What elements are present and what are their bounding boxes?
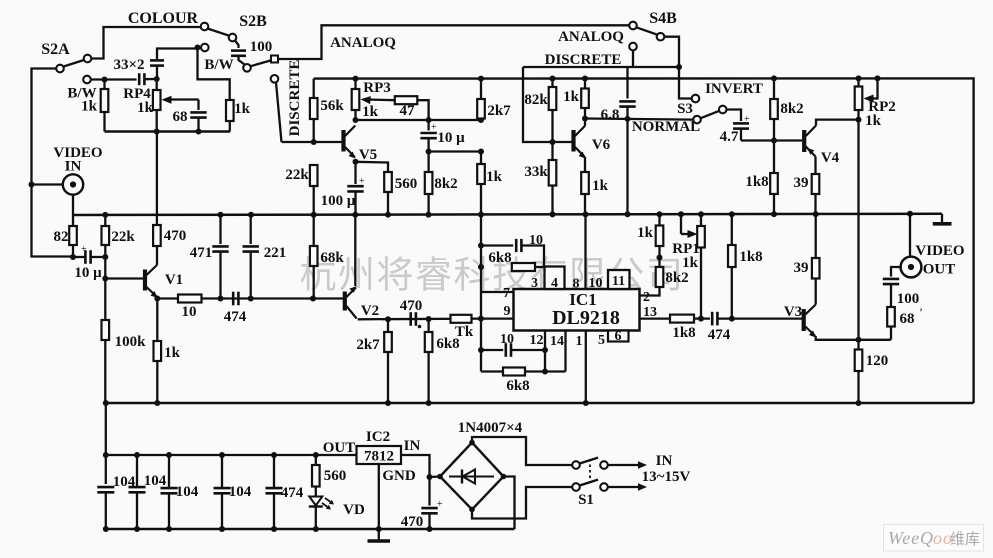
svg-text:10 μ: 10 μ [74,265,102,281]
node S2B B/W junction [195,45,201,51]
label pin8 [573,277,580,292]
capacitor 104 no3 [168,455,170,488]
resistor 68 (output) [887,307,895,340]
svg-text:’: ’ [919,305,923,319]
node cap10b right [542,347,548,353]
node 6k8a left [478,264,484,270]
svg-text:睿: 睿 [415,256,452,297]
node rail x251 [248,212,254,218]
wire bottom rail [106,402,974,405]
resistor 1k (right of RP4 block) [226,100,234,132]
svg-text:2: 2 [643,290,650,305]
svg-text:68k: 68k [320,250,344,266]
label 10 [182,304,197,320]
wire RP2 column down [857,120,859,340]
node RP2 top [856,75,862,81]
svg-text:11: 11 [612,274,625,289]
svg-text:1k: 1k [164,345,181,361]
resistor 120 [855,340,863,403]
node V1 emitter [154,296,160,302]
svg-text:104: 104 [229,484,252,500]
resistor Tk [451,315,472,323]
wire COLOUR to S2A [92,27,200,59]
wire 47 to cap 10u [417,100,428,120]
node 120 bottom [856,400,862,406]
svg-text:OUT: OUT [923,262,956,278]
label 22k [111,229,135,245]
node c5 rail [271,526,277,532]
label pin5 [598,333,605,348]
wire pin8 stub [584,214,586,289]
label 10 (pin12) [500,332,514,347]
svg-text:ANALOQ: ANALOQ [330,35,396,51]
svg-text:1k8: 1k8 [739,249,762,265]
wire pin12 stub [544,331,546,351]
wire left power column [105,403,107,484]
capacitor 100u [354,162,356,184]
resistor 1k (V6 emitter) [581,157,589,214]
label 560 (LED) [324,468,347,484]
resistor 1k8 (V4) [770,141,778,215]
label 82 [54,229,69,245]
svg-text:1k: 1k [234,101,251,117]
wire pin13 [640,317,671,319]
label 1k (RP4) [137,100,154,116]
svg-text:NORMAL: NORMAL [632,119,700,135]
label pin11 [612,274,625,289]
svg-text:RP3: RP3 [363,80,391,96]
svg-text:GND: GND [382,468,416,484]
node c2 rail [134,526,140,532]
node rail x660 [657,211,663,217]
svg-text:82: 82 [54,229,69,245]
svg-text:COLOUR: COLOUR [128,10,199,27]
resistor 6k8 (pin14) [503,368,525,376]
svg-text:1k: 1k [865,113,882,129]
capacitor 10 (pin12) [481,349,503,351]
node rail x314 [311,212,317,218]
node 471 col bottom [218,296,224,302]
label V1 [165,272,183,288]
svg-text:B/W: B/W [204,57,233,73]
node V5 emitter [353,159,359,165]
svg-text:9: 9 [504,304,511,319]
svg-text:56k: 56k [320,98,344,114]
label 104 no4 [229,484,252,500]
label DISCRETE vertical [287,60,303,137]
node 8k2 top [771,75,777,81]
label V4 [821,150,840,166]
label NORMAL [632,119,700,135]
svg-text:S2A: S2A [41,41,70,58]
svg-text:4: 4 [551,276,558,291]
switch S3 common contact [719,106,727,114]
node rail x910 [907,211,913,217]
wire V3 collector [815,296,817,305]
resistor 8k2 (pin2) [656,258,664,288]
wire V5 collector node to 2k7 [356,119,482,121]
node 56k bottom / b-w discrete wire [311,139,317,145]
svg-text:104: 104 [144,473,167,489]
node 6k8b right [542,369,548,375]
potentiometer RP2 [855,78,863,119]
svg-text:1k: 1k [592,178,609,194]
wire pin14 stub [564,331,566,372]
node rail x732 [729,211,735,217]
label GND [382,468,416,484]
node 8k2 top junction [426,149,432,155]
wire emitter y319 [358,317,481,320]
label 470 (power) [401,514,424,530]
node V1 base [102,276,108,282]
svg-text:100 μ: 100 μ [321,193,356,209]
capacitor 10u (V5) [427,120,429,130]
switch S1 link dashed [589,459,591,482]
node cap10b left [478,347,484,353]
node c4 rail [219,526,225,532]
svg-text:1k: 1k [137,100,154,116]
node 6k8v top [426,316,432,322]
node 2k7b top [385,316,391,322]
node rail x388 [385,212,391,218]
switch S2B B/W throw contact [201,44,209,52]
resistor 2k7 (top) [477,79,485,120]
resistor 47 [395,96,418,104]
node cap470 rail [427,526,433,532]
svg-text:560: 560 [324,468,347,484]
wire V1 collector [156,246,158,265]
label 100k [115,334,147,350]
switch S2A throw contact [56,65,64,73]
transistor V2 [345,286,357,319]
svg-text:68: 68 [173,109,188,125]
node S4B discrete junction [676,64,682,70]
svg-text:1k: 1k [563,89,580,105]
label 68k [320,250,344,266]
wire V2 collector column [354,215,356,286]
svg-text:1k8: 1k8 [745,174,768,190]
wire S4B common down [664,37,679,67]
svg-text:33×2: 33×2 [113,57,144,73]
node V5 collector [353,117,359,123]
wire S1 out bottom [608,486,640,488]
svg-text:10: 10 [182,304,197,320]
svg-text:6.8: 6.8 [601,107,620,123]
svg-text:OUT: OUT [323,440,356,456]
switch S2B colour throw contact [201,23,209,31]
svg-text:DISCRETE: DISCRETE [545,52,622,68]
label VIDEO OUT [915,243,964,259]
svg-text:471: 471 [190,245,213,261]
svg-text:+: + [437,499,443,510]
svg-text:474: 474 [224,309,247,325]
svg-text:1k: 1k [637,225,654,241]
label 474 (power) [281,485,304,501]
svg-text:104: 104 [176,484,199,500]
svg-text:V4: V4 [821,150,840,166]
label 1k (right) [234,101,251,117]
svg-text:8k2: 8k2 [665,270,688,286]
wire cap to RP4 node [145,78,157,80]
wire V4 collector [816,120,859,126]
label S3 [677,101,693,117]
node 8k2/1k junction [657,255,663,261]
svg-text:100: 100 [250,39,273,55]
node 2k7 bottom rail [385,400,391,406]
label DISCRETE right [545,52,622,68]
node 221 col bottom [248,296,254,302]
capacitor 6.8 column [626,67,628,99]
label VIDEO IN [53,145,102,161]
node pin1 rail [583,400,589,406]
svg-text:1k: 1k [486,169,503,185]
node 68 bottom [196,129,202,135]
label 1k8 (V4) [745,174,768,190]
svg-text:S3: S3 [677,101,693,117]
capacitor 10 (pin4) [481,244,513,246]
label pin10 [589,276,603,291]
label V5 [359,147,377,163]
node V4 base [771,138,777,144]
svg-text:5: 5 [598,333,605,348]
resistor 33k [549,142,557,214]
svg-text:100: 100 [897,291,920,307]
svg-text:将: 将 [377,256,414,297]
capacitor 10u input [85,250,90,264]
label 471 [190,245,213,261]
switch S1 pole1 blade [579,458,598,464]
switch blade analog [250,61,270,67]
svg-text:WeeQ: WeeQ [888,528,933,548]
resistor 470 (V1 collector) [153,132,161,247]
switch S1 pole1 left contact [572,461,580,469]
label 39 (V3) [794,260,809,276]
resistor 100k [102,320,110,403]
switch S1 pole1 right contact [600,461,608,469]
node rail x774 [771,211,777,217]
svg-text:V3: V3 [784,304,802,320]
svg-text:ANALOQ: ANALOQ [558,29,624,45]
node 82k top [550,76,556,82]
svg-text:1k: 1k [81,99,98,115]
label 1k8 (pin13) [672,325,695,341]
svg-text:1: 1 [576,334,583,349]
label 33k [524,164,548,180]
svg-text:6: 6 [615,329,622,344]
potentiometer RP3 [352,79,360,120]
wire cap 4.7 to 8k2 node [741,139,774,141]
label 6.8 [601,107,620,123]
node bridge + node [427,474,433,480]
capacitor 474 (power) [273,455,275,488]
wire pin1 to bottom rail [585,331,587,404]
label 2k7 (top) [487,103,511,119]
connector VIDEO IN [63,174,83,194]
node c3 [166,452,172,458]
label 221 [264,245,287,261]
label 8k2 (pin2) [665,270,688,286]
resistor 1k8 (pin13) [670,315,694,323]
svg-text:100k: 100k [115,334,147,350]
svg-text:12: 12 [530,333,544,348]
svg-text:120: 120 [866,353,889,369]
label 6k8 (V2) [436,336,459,352]
node 2k7 top [478,76,484,82]
svg-text:IN: IN [656,453,673,469]
switch S1 pole2 left contact [572,483,580,491]
svg-text:82k: 82k [524,92,548,108]
capacitor 470 (V2) [411,312,416,326]
node rail x355 [352,212,358,218]
wire pin12-14 col [544,350,546,372]
label 560 [395,176,418,192]
svg-text:科: 科 [454,256,491,297]
label 1k (B/W resistor) [81,99,98,115]
label 13-15V [642,469,691,485]
label RP1 [672,241,700,257]
capacitor 100 (output) [891,267,901,277]
label 1k8 (vertical) [739,249,762,265]
switch S3 normal throw contact [693,116,701,124]
label IN (power) [656,453,673,469]
capacitor 470 (power) [428,477,430,506]
terminal analog square contact [271,56,278,63]
label 10u (V5) [437,130,465,146]
svg-text:10: 10 [529,233,543,248]
label 8k2 (V4) [780,101,803,117]
wire analog to top rail [278,25,629,59]
node cap 6.8 bottom [625,116,631,122]
label 1k (V1) [164,345,181,361]
terminal discrete contact [271,75,279,83]
label 1k (V6 emitter) [592,178,609,194]
wire V1 emitter output y298 [157,297,313,299]
transistor V1 [145,265,158,298]
wire VIDEO IN down to rail [72,195,74,215]
node 560 top [313,452,319,458]
svg-text:V6: V6 [592,137,611,153]
bridge rectifier diamond [437,440,506,513]
svg-text:7812: 7812 [364,449,394,465]
label 22k (discrete) [285,167,309,183]
svg-text:2k7: 2k7 [356,337,380,353]
switch S2A blade [64,60,85,67]
svg-text:68: 68 [900,311,915,327]
label 1N4007x4 [458,420,523,436]
label 68 [173,109,188,125]
svg-text:6k8: 6k8 [488,250,511,266]
label pin2 [643,290,650,305]
svg-text:1k: 1k [682,255,699,271]
label 68 (output) [900,311,915,327]
label 100u [321,193,356,209]
label V3 [784,304,802,320]
wire ground rail (power) [106,528,515,531]
node 68k bottom V2 base [310,296,316,302]
label ANALOQ right [558,29,624,45]
ic IC1 box [514,289,640,331]
svg-text:+: + [81,244,87,255]
label IC1 [569,290,596,309]
node 1k top [478,149,484,155]
svg-text:V2: V2 [361,303,379,319]
transistor V6 [574,126,586,159]
label S4B [649,10,677,27]
label pin4 [551,276,558,291]
label V2 [361,303,379,319]
wire collector node to normal throw [585,119,694,120]
capacitor 474 (coupling) [233,292,238,306]
label 1k (V6 collector) [563,89,580,105]
label pin1 [576,334,583,349]
label 56k [320,98,344,114]
svg-text:1N4007×4: 1N4007×4 [458,420,523,436]
label B/W (right) [204,57,233,73]
wire S4B discrete throw to wire [632,50,634,67]
wire rail start to 56k [313,79,315,98]
resistor 68k (V2 base) [310,215,318,299]
resistor 1k8 (vertical) [728,214,736,318]
label 470 [164,228,187,244]
capacitor 104 no2 [136,455,138,487]
label COLOUR [128,10,199,27]
label S1 [578,492,594,508]
svg-text:IN: IN [65,159,82,175]
resistor 1k (V1 emitter) [154,299,162,404]
label 4.7 [720,129,739,145]
wire B/W contact to cap 33x2 lower [91,78,137,80]
svg-text:33k: 33k [524,164,548,180]
svg-text:8k2: 8k2 [780,101,803,117]
node power +12 corner [103,452,109,458]
node c1 rail [103,526,109,532]
wire V1 base [105,277,143,279]
wire 33x2 to RP4 node [156,66,158,79]
label Tk [455,324,474,340]
wire cap 10u down [427,138,429,151]
wire into VIDEO IN [32,183,63,185]
node rail x586 [583,211,589,217]
switch S2B-2 common contact [243,64,251,72]
resistor 8k2 (V5) [425,152,433,215]
wire V4 emitter [814,157,816,175]
label 10u [74,265,102,281]
led VD [309,487,334,530]
node 47/cap junction [426,117,432,123]
node rail x105 [102,212,108,218]
svg-text:IC2: IC2 [366,429,390,445]
ic IC2 7812 box [357,446,402,464]
svg-text:+: + [744,114,750,125]
svg-text:8k2: 8k2 [434,176,457,192]
svg-text:13~15V: 13~15V [642,469,691,485]
svg-text:VD: VD [343,502,365,518]
ground symbol right [941,214,943,223]
node pin9 junction [478,316,484,322]
svg-text:INVERT: INVERT [705,81,763,97]
wire 7812 gnd stem [378,464,380,529]
ic pin4 box [545,267,565,290]
switch S2B blade [208,29,230,36]
watermark weeqoo text [888,528,980,548]
node cap10a left [478,243,484,249]
switch S4B discrete throw contact [629,43,637,51]
svg-text:221: 221 [264,245,287,261]
terminal B/W left contact [83,76,91,84]
wire junction to 1k col [429,150,481,152]
resistor 1k (above pin2) [656,214,664,257]
wire mid rail [73,214,942,215]
